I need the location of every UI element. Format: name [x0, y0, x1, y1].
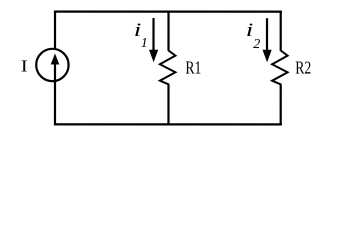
svg-text:2: 2: [253, 37, 260, 52]
svg-text:1: 1: [141, 36, 148, 51]
svg-text:R2: R2: [295, 58, 311, 78]
svg-text:I: I: [21, 56, 28, 75]
svg-text:R1: R1: [185, 58, 201, 78]
svg-text:i: i: [246, 20, 254, 41]
